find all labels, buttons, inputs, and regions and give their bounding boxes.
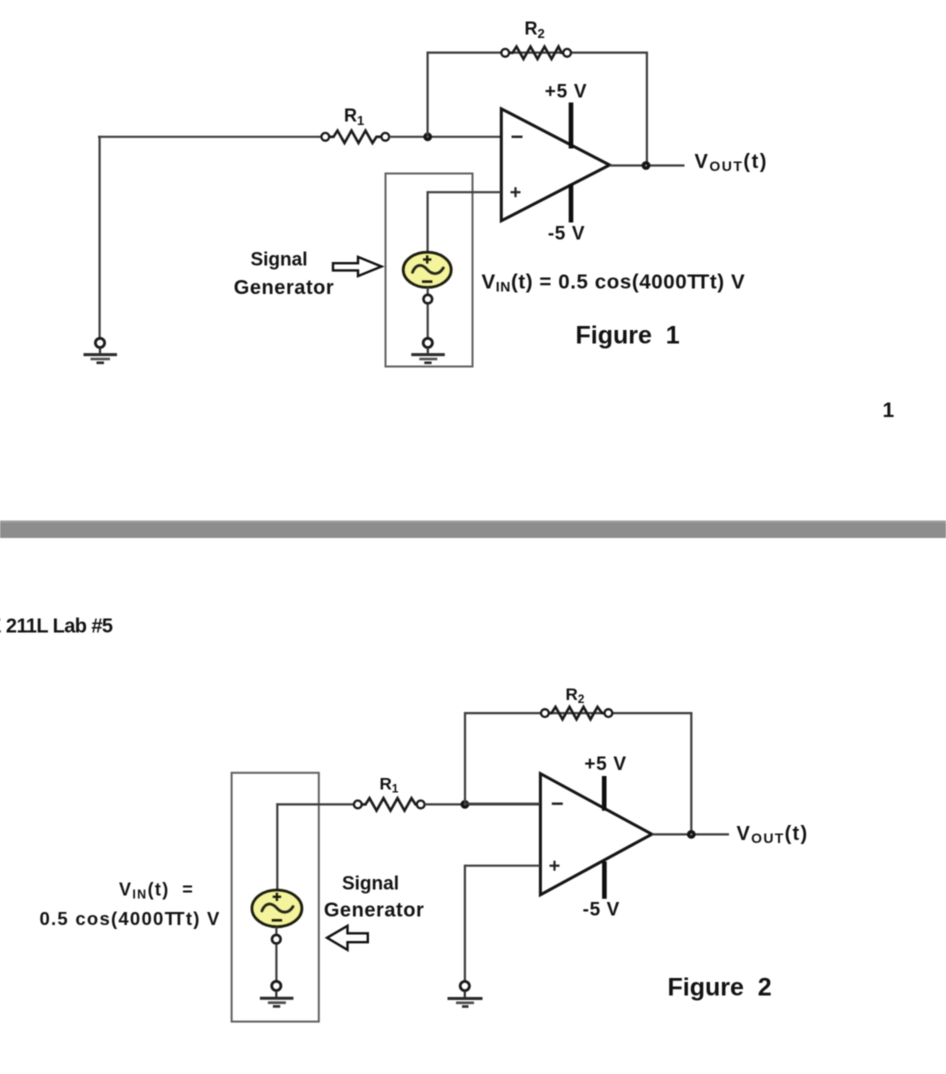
wire: R1 to inverting input bbox=[389, 136, 501, 138]
node: generator ground terminal circle (figure 2) bbox=[272, 981, 281, 990]
wire: inverting input (figure 2) bbox=[465, 803, 540, 805]
resistor R1 bbox=[321, 131, 389, 143]
wire: feedback vertical up (figure 2) bbox=[464, 712, 466, 804]
svg-text:-5 V: -5 V bbox=[583, 899, 620, 920]
svg-text:R2: R2 bbox=[525, 19, 545, 42]
svg-text:R1: R1 bbox=[344, 106, 364, 129]
op-amp U1 bbox=[501, 109, 609, 221]
signal generator box (figure 2) bbox=[232, 773, 319, 1022]
svg-text:Generator: Generator bbox=[234, 277, 335, 299]
wire: source to ground (figure 2) bbox=[275, 927, 277, 981]
wire: output bbox=[610, 164, 685, 166]
svg-text:+5 V: +5 V bbox=[584, 754, 626, 775]
wire: feedback vertical up from node A bbox=[427, 52, 429, 137]
wire: non-inverting input horizontal bbox=[427, 191, 501, 193]
label Figure 2 bbox=[668, 974, 772, 1002]
label U2 non-inverting input + bbox=[550, 861, 560, 871]
node: ground terminal circle (figure 2 right) bbox=[460, 981, 469, 990]
label -5 V (figure 2) bbox=[583, 899, 620, 920]
resistor R2 (figure 2) bbox=[541, 707, 612, 719]
ground: generator ground (figure 1) bbox=[411, 348, 445, 363]
node: generator terminal circle upper (figure 2) bbox=[272, 935, 281, 944]
svg-text:R1: R1 bbox=[380, 775, 399, 796]
svg-text:R2: R2 bbox=[566, 685, 585, 706]
wire: R1 to node (figure 2) bbox=[425, 803, 540, 805]
power rail +5V bar U1 bbox=[569, 103, 574, 149]
ground: generator ground (figure 2) bbox=[260, 991, 294, 1007]
svg-text:0.5 cos(4000TTt) V: 0.5 cos(4000TTt) V bbox=[40, 908, 221, 929]
op-amp U2 bbox=[540, 774, 652, 895]
label VOUT(t) (figure 2) bbox=[737, 823, 809, 846]
power rail -5V bar U2 bbox=[602, 862, 607, 899]
label R1 (figure 2) bbox=[380, 775, 399, 796]
source V1: sine source circle bbox=[403, 252, 451, 287]
wire: non-inverting input left (figure 2) bbox=[464, 865, 540, 867]
label U2 inverting input - bbox=[552, 803, 563, 805]
svg-text:1: 1 bbox=[883, 399, 895, 422]
label +5 V bbox=[545, 82, 587, 103]
page divider bar bbox=[0, 521, 946, 539]
label +5 V (figure 2) bbox=[584, 754, 626, 775]
label page number 1 bbox=[883, 399, 895, 422]
label R2 bbox=[525, 19, 545, 42]
node: input ground terminal circle bbox=[95, 338, 104, 347]
node: generator terminal circle upper bbox=[424, 295, 433, 304]
wire: input left horizontal to R1 bbox=[98, 136, 322, 138]
arrow: block arrow pointing right bbox=[333, 257, 382, 276]
svg-text:VIN(t) =: VIN(t) = bbox=[119, 880, 194, 902]
wire: input left vertical down to ground bbox=[98, 136, 100, 338]
node: output junction (figure 2) bbox=[687, 830, 696, 839]
svg-text:VOUT(t): VOUT(t) bbox=[695, 151, 768, 174]
svg-text:VIN(t) = 0.5 cos(4000TTt) V: VIN(t) = 0.5 cos(4000TTt) V bbox=[482, 271, 746, 295]
wire: non-inverting down to ground (figure 2) bbox=[464, 865, 466, 981]
wire: feedback top horizontal (figure 2) bbox=[464, 712, 692, 714]
arrow: block arrow pointing left (figure 2) bbox=[327, 926, 368, 950]
node: output junction bbox=[642, 161, 651, 170]
label Signal Generator (figure 2) bbox=[324, 873, 425, 921]
label VIN(t) equation (figure 1) bbox=[482, 271, 746, 295]
label Figure 1 bbox=[576, 322, 680, 350]
svg-text:-5 V: -5 V bbox=[548, 224, 585, 245]
svg-text:Generator: Generator bbox=[324, 899, 425, 921]
label -5 V bbox=[548, 224, 585, 245]
node A: inverting input junction bbox=[423, 132, 432, 141]
ground: left input ground bbox=[84, 348, 118, 363]
svg-text:Signal: Signal bbox=[342, 873, 399, 894]
ground: non-inverting ground (figure 2) bbox=[448, 991, 483, 1007]
label U1 non-inverting input + bbox=[511, 187, 521, 197]
node B: inverting junction (figure 2) bbox=[461, 800, 470, 809]
signal generator box (figure 1) bbox=[386, 174, 473, 367]
svg-text:VOUT(t): VOUT(t) bbox=[737, 823, 809, 846]
wire: feedback top horizontal bbox=[427, 51, 649, 53]
label VOUT(t) bbox=[695, 151, 768, 174]
wire: generator up-wire (figure 2) bbox=[276, 803, 278, 890]
node: generator ground terminal circle bbox=[423, 338, 432, 347]
label R1 bbox=[344, 106, 364, 129]
svg-text:Figure 1: Figure 1 bbox=[576, 322, 680, 350]
label R2 (figure 2) bbox=[566, 685, 585, 706]
wire: output (figure 2) bbox=[652, 833, 729, 835]
svg-text:Figure 2: Figure 2 bbox=[668, 974, 772, 1002]
source V2: sine source circle (figure 2) bbox=[252, 890, 302, 927]
label EE 211L Lab #5 bbox=[0, 615, 113, 637]
label U1 inverting input - bbox=[512, 136, 523, 138]
wire: source to ground terminal bbox=[427, 287, 429, 338]
wire: feedback right vertical down to output bbox=[646, 52, 648, 166]
resistor R1 (figure 2) bbox=[354, 798, 425, 810]
svg-text:EE 211L Lab #5: EE 211L Lab #5 bbox=[0, 615, 113, 637]
wire: generator to R1 (figure 2) bbox=[276, 803, 354, 805]
svg-text:Signal: Signal bbox=[250, 250, 307, 271]
svg-text:+5 V: +5 V bbox=[545, 82, 587, 103]
power rail +5V bar U2 bbox=[602, 776, 607, 811]
resistor R2 bbox=[501, 47, 571, 59]
label VIN(t) equation (figure 2) bbox=[40, 880, 221, 929]
power rail -5V bar U1 bbox=[569, 184, 574, 223]
wire: generator vertical to + input bbox=[427, 191, 429, 253]
wire: feedback right vertical down (figure 2) bbox=[690, 712, 692, 834]
label Signal Generator (figure 1) bbox=[234, 250, 335, 300]
